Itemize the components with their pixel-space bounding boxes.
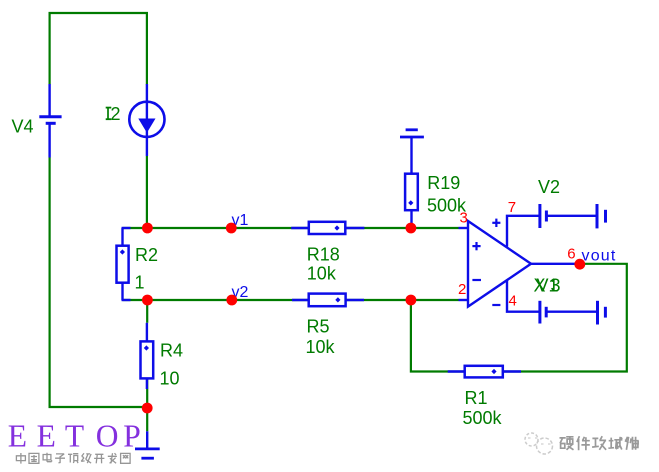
svg-text:V1: V1 [537,276,559,296]
svg-text:V4: V4 [12,117,34,137]
svg-text:E: E [8,418,27,453]
resistor R18 [291,222,364,234]
svg-text:T: T [65,418,84,453]
op-amp - input mark [472,279,481,281]
svg-text:10k: 10k [307,264,337,284]
svg-text:10k: 10k [306,337,336,357]
junction dot at R2 top [142,223,153,234]
ground (bottom left) [135,431,160,458]
svg-text:3: 3 [460,210,468,227]
svg-text:R18: R18 [307,245,340,265]
watermark icon [525,433,553,454]
battery V1 [540,301,606,325]
op-amp output lead [531,263,576,265]
junction dot at R5 / pin 2 / feedback [406,295,417,306]
EETOP logo [8,418,141,453]
svg-text:R4: R4 [160,341,183,361]
wire V4 bottom to ground node [50,158,148,408]
svg-text:R19: R19 [427,173,460,193]
svg-text:V2: V2 [538,177,560,197]
current source I2 [129,84,164,156]
power + mark [492,219,500,227]
resistor R4 [141,323,154,389]
junction dot at ground node [142,403,153,414]
svg-text:P: P [123,418,141,453]
svg-text:6: 6 [567,246,575,263]
svg-text:vout: vout [582,248,617,265]
wire v1 row [123,227,459,229]
battery V4 [39,84,61,158]
junction dot at R19 bottom / pin 3 [406,223,417,234]
svg-text:10: 10 [160,369,180,389]
ground (top, inverted, above R19) [400,130,424,174]
watermark text (drawn glyph boxes) [560,436,639,450]
svg-text:7: 7 [508,199,516,216]
EETOP chinese slogan (drawn glyph boxes) [16,453,130,464]
svg-text:R1: R1 [465,388,488,408]
pin 4 wire [507,280,540,312]
junction dot at R2 bottom [142,295,153,306]
svg-text:1: 1 [135,273,145,293]
svg-text:R5: R5 [307,317,330,337]
svg-text:E: E [37,418,56,453]
svg-text:4: 4 [509,293,517,310]
junction dot node v1 [226,223,237,234]
op-amp X3 triangle [468,221,531,307]
battery V2 [540,204,606,228]
power - mark [492,304,500,306]
junction dot node vout [574,259,585,270]
wire R4 bottom segment [146,378,148,431]
pin 7 wire [507,216,540,247]
wire feedback loop through R1 to vout [411,264,627,372]
junction dot node v2 [226,295,237,306]
resistor R5 [292,294,364,307]
svg-text:2: 2 [458,281,466,298]
svg-text:O: O [96,418,119,453]
wire top loop V4 to I2 [50,13,147,85]
op-amp X3 input leads [459,227,469,229]
op-amp + input mark [472,242,480,250]
resistor R2 [117,228,131,300]
wire v2 row [123,299,459,301]
resistor R19 [405,174,418,228]
svg-text:500k: 500k [463,408,503,428]
resistor R1 [448,366,521,378]
wire R4 top segment [146,300,148,323]
wire I2 bottom to node v-top [146,156,148,228]
svg-text:R2: R2 [135,245,158,265]
